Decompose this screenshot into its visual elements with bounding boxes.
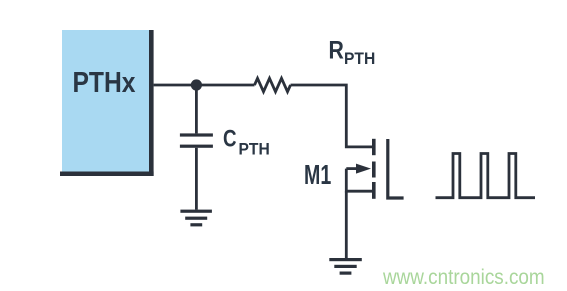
body arrow	[346, 167, 357, 170]
wire from resistor to MOSFET drain	[291, 85, 373, 147]
source wire to ground	[345, 191, 348, 258]
body contact tick	[372, 162, 376, 178]
source contact tick	[372, 182, 376, 199]
svg-text:R: R	[329, 36, 345, 64]
svg-text:PTHx: PTHx	[73, 66, 136, 98]
node junction	[191, 79, 202, 90]
svg-text:www.cntronics.com: www.cntronics.com	[382, 266, 545, 289]
ground under C_PTH	[180, 210, 212, 227]
svg-text:M1: M1	[304, 160, 331, 191]
label R_PTH	[329, 36, 376, 68]
mosfet M1	[346, 139, 403, 199]
block PTHx	[60, 30, 154, 176]
gate electrode and lead	[388, 139, 404, 198]
resistor R_PTH	[255, 78, 291, 91]
body-to-source wire	[346, 169, 372, 192]
svg-text:PTH: PTH	[344, 49, 375, 68]
label C_PTH	[223, 125, 270, 158]
pulse waveform	[436, 154, 536, 198]
ground under M1	[329, 258, 362, 275]
svg-text:C: C	[223, 125, 237, 152]
drain contact tick	[372, 139, 376, 155]
wire from PTHx to resistor	[154, 84, 255, 87]
capacitor C_PTH	[180, 85, 213, 210]
svg-text:PTH: PTH	[239, 140, 270, 159]
